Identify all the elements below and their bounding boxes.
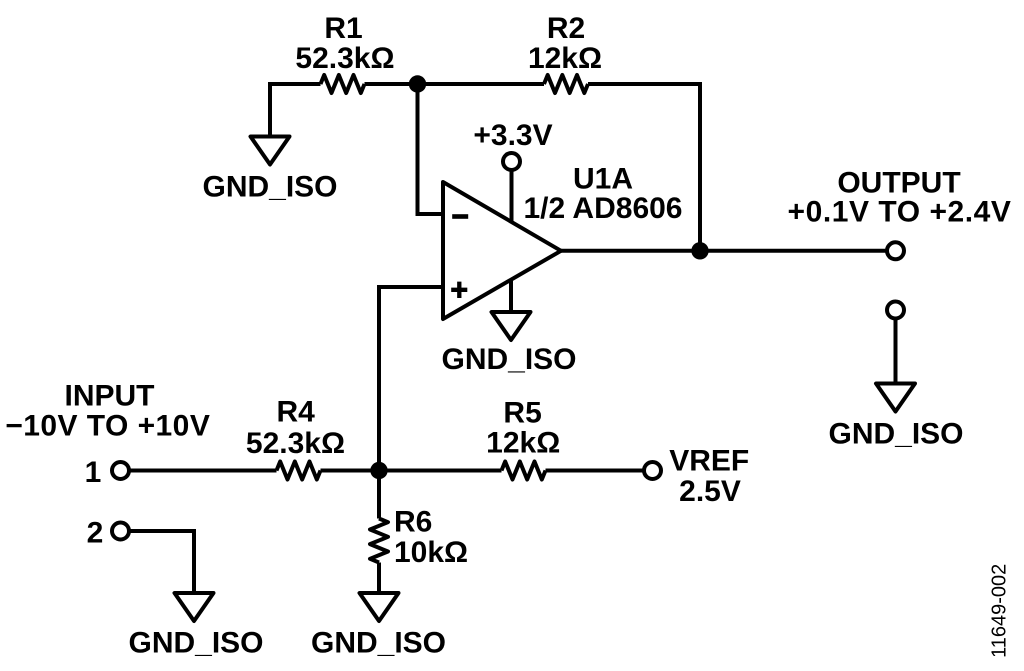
- svg-text:1/2 AD8606: 1/2 AD8606: [524, 192, 683, 225]
- svg-text:2: 2: [87, 517, 104, 550]
- node: input junction: [370, 462, 387, 479]
- svg-text:R2: R2: [547, 12, 585, 45]
- wire: feedback node down to inverting input: [418, 84, 444, 214]
- resistor R5: [502, 462, 546, 480]
- wire: input 1 to R4: [129, 469, 277, 473]
- resistor R2: [544, 75, 588, 93]
- svg-text:1: 1: [85, 456, 102, 489]
- ground GND_ISO at output: [876, 384, 915, 412]
- wire: R5 to VREF terminal: [546, 469, 645, 473]
- node: feedback junction: [409, 75, 426, 92]
- svg-text:+0.1V TO +2.4V: +0.1V TO +2.4V: [788, 195, 1012, 228]
- ground GND_ISO below op-amp: [492, 312, 531, 340]
- wire: R2 right lead down to output node: [588, 84, 700, 251]
- wire: op-amp ground lead: [509, 278, 513, 313]
- terminal: output ground circle: [887, 302, 904, 319]
- wire: input node down to R6: [377, 471, 381, 519]
- svg-text:52.3kΩ: 52.3kΩ: [295, 42, 394, 75]
- svg-text:GND_ISO: GND_ISO: [311, 627, 446, 660]
- wire: R6 to ground: [377, 563, 381, 595]
- wire: R4 to R5 through input node: [321, 469, 502, 473]
- svg-text:VREF: VREF: [669, 445, 749, 478]
- wire: GND_ISO drop and top-left segment to R1: [270, 84, 321, 137]
- terminal: VREF circle: [644, 462, 661, 479]
- svg-text:R6: R6: [394, 506, 432, 539]
- plus symbol: [451, 282, 467, 298]
- resistor R4: [277, 462, 321, 480]
- svg-text:R4: R4: [277, 396, 316, 429]
- svg-text:R1: R1: [324, 12, 362, 45]
- wire: +3.3V supply to op-amp: [510, 170, 514, 222]
- terminal: output circle: [887, 242, 904, 259]
- svg-text:11649-002: 11649-002: [988, 564, 1010, 658]
- svg-text:GND_ISO: GND_ISO: [202, 171, 337, 204]
- terminal 2 circle: [112, 523, 129, 540]
- resistor R1: [321, 75, 365, 93]
- node: output junction: [691, 242, 708, 259]
- ground GND_ISO top-left: [251, 137, 290, 165]
- svg-text:GND_ISO: GND_ISO: [441, 343, 576, 376]
- resistor R6: [370, 519, 388, 563]
- svg-text:+3.3V: +3.3V: [473, 119, 552, 152]
- svg-text:12kΩ: 12kΩ: [528, 42, 602, 75]
- svg-text:GND_ISO: GND_ISO: [828, 418, 963, 451]
- svg-text:−10V TO +10V: −10V TO +10V: [5, 409, 210, 442]
- wire: input 2 to ground: [129, 531, 194, 594]
- wire: non-inverting input from input node: [379, 287, 443, 471]
- svg-text:U1A: U1A: [573, 162, 633, 195]
- ground GND_ISO below terminal 2: [175, 593, 214, 621]
- svg-text:OUTPUT: OUTPUT: [837, 166, 960, 199]
- svg-text:52.3kΩ: 52.3kΩ: [246, 427, 345, 460]
- wire: R1 to R2 through feedback node: [365, 82, 545, 86]
- ground GND_ISO below R6: [360, 593, 399, 621]
- terminal 1 circle: [112, 462, 129, 479]
- minus symbol: [452, 214, 468, 219]
- wire: output ground drop: [894, 319, 898, 386]
- svg-text:10kΩ: 10kΩ: [394, 536, 468, 569]
- svg-text:INPUT: INPUT: [65, 379, 155, 412]
- svg-text:12kΩ: 12kΩ: [486, 427, 560, 460]
- wire: output: [561, 249, 887, 253]
- op-amp U1A: [443, 182, 561, 319]
- terminal: +3.3V supply circle: [503, 153, 520, 170]
- svg-text:GND_ISO: GND_ISO: [128, 627, 263, 660]
- svg-text:2.5V: 2.5V: [679, 475, 741, 508]
- svg-text:R5: R5: [503, 397, 541, 430]
